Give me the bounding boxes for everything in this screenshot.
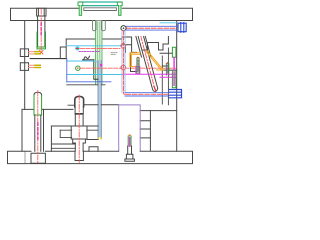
latch red dashes: [126, 27, 176, 29]
support step right: [140, 110, 177, 112]
tiny dim marks: [111, 53, 117, 55]
bolt B1 thread green: [37, 32, 46, 49]
ejector rod right blue bushing: [169, 90, 181, 98]
ejector plate mid line: [87, 139, 98, 141]
center pin P2 centerline: [78, 95, 80, 163]
center pin P2 bottom pocket: [75, 151, 83, 160]
angle pin hole edges: [136, 37, 151, 58]
section ring bottom: [121, 65, 126, 70]
support plate line right: [85, 104, 119, 106]
clamp lower pull lines: [29, 65, 37, 67]
latch end circle: [121, 26, 126, 31]
top clamp plate: [11, 8, 193, 20]
stop pin: [125, 134, 134, 161]
yellow tip of steel column: [98, 138, 101, 139]
angle pin body: [138, 37, 158, 92]
bolt B1 magenta dashes: [40, 23, 42, 36]
return pin P1 shaft: [35, 115, 41, 151]
water line bottom red dashes: [81, 67, 176, 69]
clamp upper pull lines: [29, 52, 37, 54]
cyan support line: [160, 22, 177, 24]
counterbore bottom: [60, 130, 71, 137]
return pin P1 green body: [34, 95, 42, 115]
water circle top: [75, 46, 79, 50]
blue box left edge: [66, 59, 68, 82]
water line top red dashes: [81, 47, 121, 49]
cooling box cyan: [66, 46, 122, 75]
return pin P1 base: [31, 153, 45, 163]
wear plate orange upper left: [130, 53, 140, 67]
angle pin red tip tick: [154, 87, 156, 91]
left rail: [22, 109, 44, 151]
gate magenta box: [100, 64, 103, 67]
center pin P2 lower shaft: [75, 143, 83, 151]
bolt B1 shaft: [38, 16, 45, 47]
ejector plate top line: [51, 125, 98, 127]
side lock clamp lower: [20, 63, 28, 71]
return pin P1 cap: [34, 92, 42, 95]
center pin P2 collar: [75, 113, 84, 115]
mold body right edge: [176, 21, 178, 152]
center pin P2 mid shaft: [75, 115, 83, 126]
right bolt magenta dashes: [173, 58, 175, 87]
part left hook tab: [78, 2, 83, 15]
return pin P1 magenta dashes: [37, 123, 39, 139]
water line top magenta ticks: [79, 51, 100, 53]
support plate top line: [67, 84, 105, 86]
molded part green band: [80, 2, 122, 6]
bolt B1 head: [37, 8, 46, 16]
magenta line right short: [160, 76, 177, 78]
latch right clip blue: [178, 23, 186, 33]
cavity pocket left wall: [60, 39, 66, 58]
right rail inner edge: [149, 111, 151, 151]
support pad on bottom plate: [89, 147, 98, 151]
right pocket: [140, 121, 150, 138]
ejector rod vertical segment: [122, 31, 125, 95]
magenta parting line right: [123, 73, 177, 75]
counterbore line: [60, 129, 98, 131]
purple ejector hole: [119, 105, 141, 151]
ejector rod row: [125, 93, 169, 96]
gate blue tick: [95, 61, 98, 63]
mold body left edge: [24, 21, 26, 110]
ejector plate line 144: [51, 143, 75, 145]
latch bar row: [121, 23, 186, 33]
bottom plate left step: [24, 151, 26, 163]
latch blue lines: [126, 26, 177, 30]
part right hook tab: [117, 2, 122, 15]
parting line left: [30, 58, 66, 60]
water circle bottom: [76, 66, 80, 70]
side lock clamp upper: [20, 49, 28, 57]
sprue bushing column: [96, 21, 103, 85]
bolt B1 centerline: [40, 9, 42, 50]
support plate line left: [22, 108, 73, 110]
sprue ear right: [102, 21, 106, 31]
center pin P2 cap: [75, 96, 84, 106]
wear plate orange right diagonal: [146, 51, 163, 70]
ejector plate left edge: [50, 126, 52, 151]
bolt B1 tip hatch: [40, 51, 44, 55]
small green pin right: [166, 62, 168, 75]
section ring top: [121, 44, 126, 49]
center pin P2 upper shaft: [75, 107, 83, 113]
right green bolt upper: [172, 47, 176, 57]
ejector plate line 148: [51, 147, 75, 149]
cavity pocket top line: [66, 38, 122, 40]
gate insert cluster: [83, 56, 99, 79]
pin boss step left: [68, 104, 75, 106]
angle pin centerline: [141, 37, 155, 90]
blue ejector line: [67, 81, 111, 83]
right green bolt lower: [172, 71, 176, 88]
small green pin in slide: [136, 57, 140, 74]
sprue ear left: [93, 21, 97, 31]
slide pocket outlines: [122, 37, 177, 105]
sprue puller steel column: [98, 61, 101, 138]
bottom clamp plate: [8, 151, 193, 163]
return pin P1 centerline: [37, 91, 39, 164]
center pin P2 head: [71, 126, 87, 143]
part pocket floor: [84, 8, 117, 11]
